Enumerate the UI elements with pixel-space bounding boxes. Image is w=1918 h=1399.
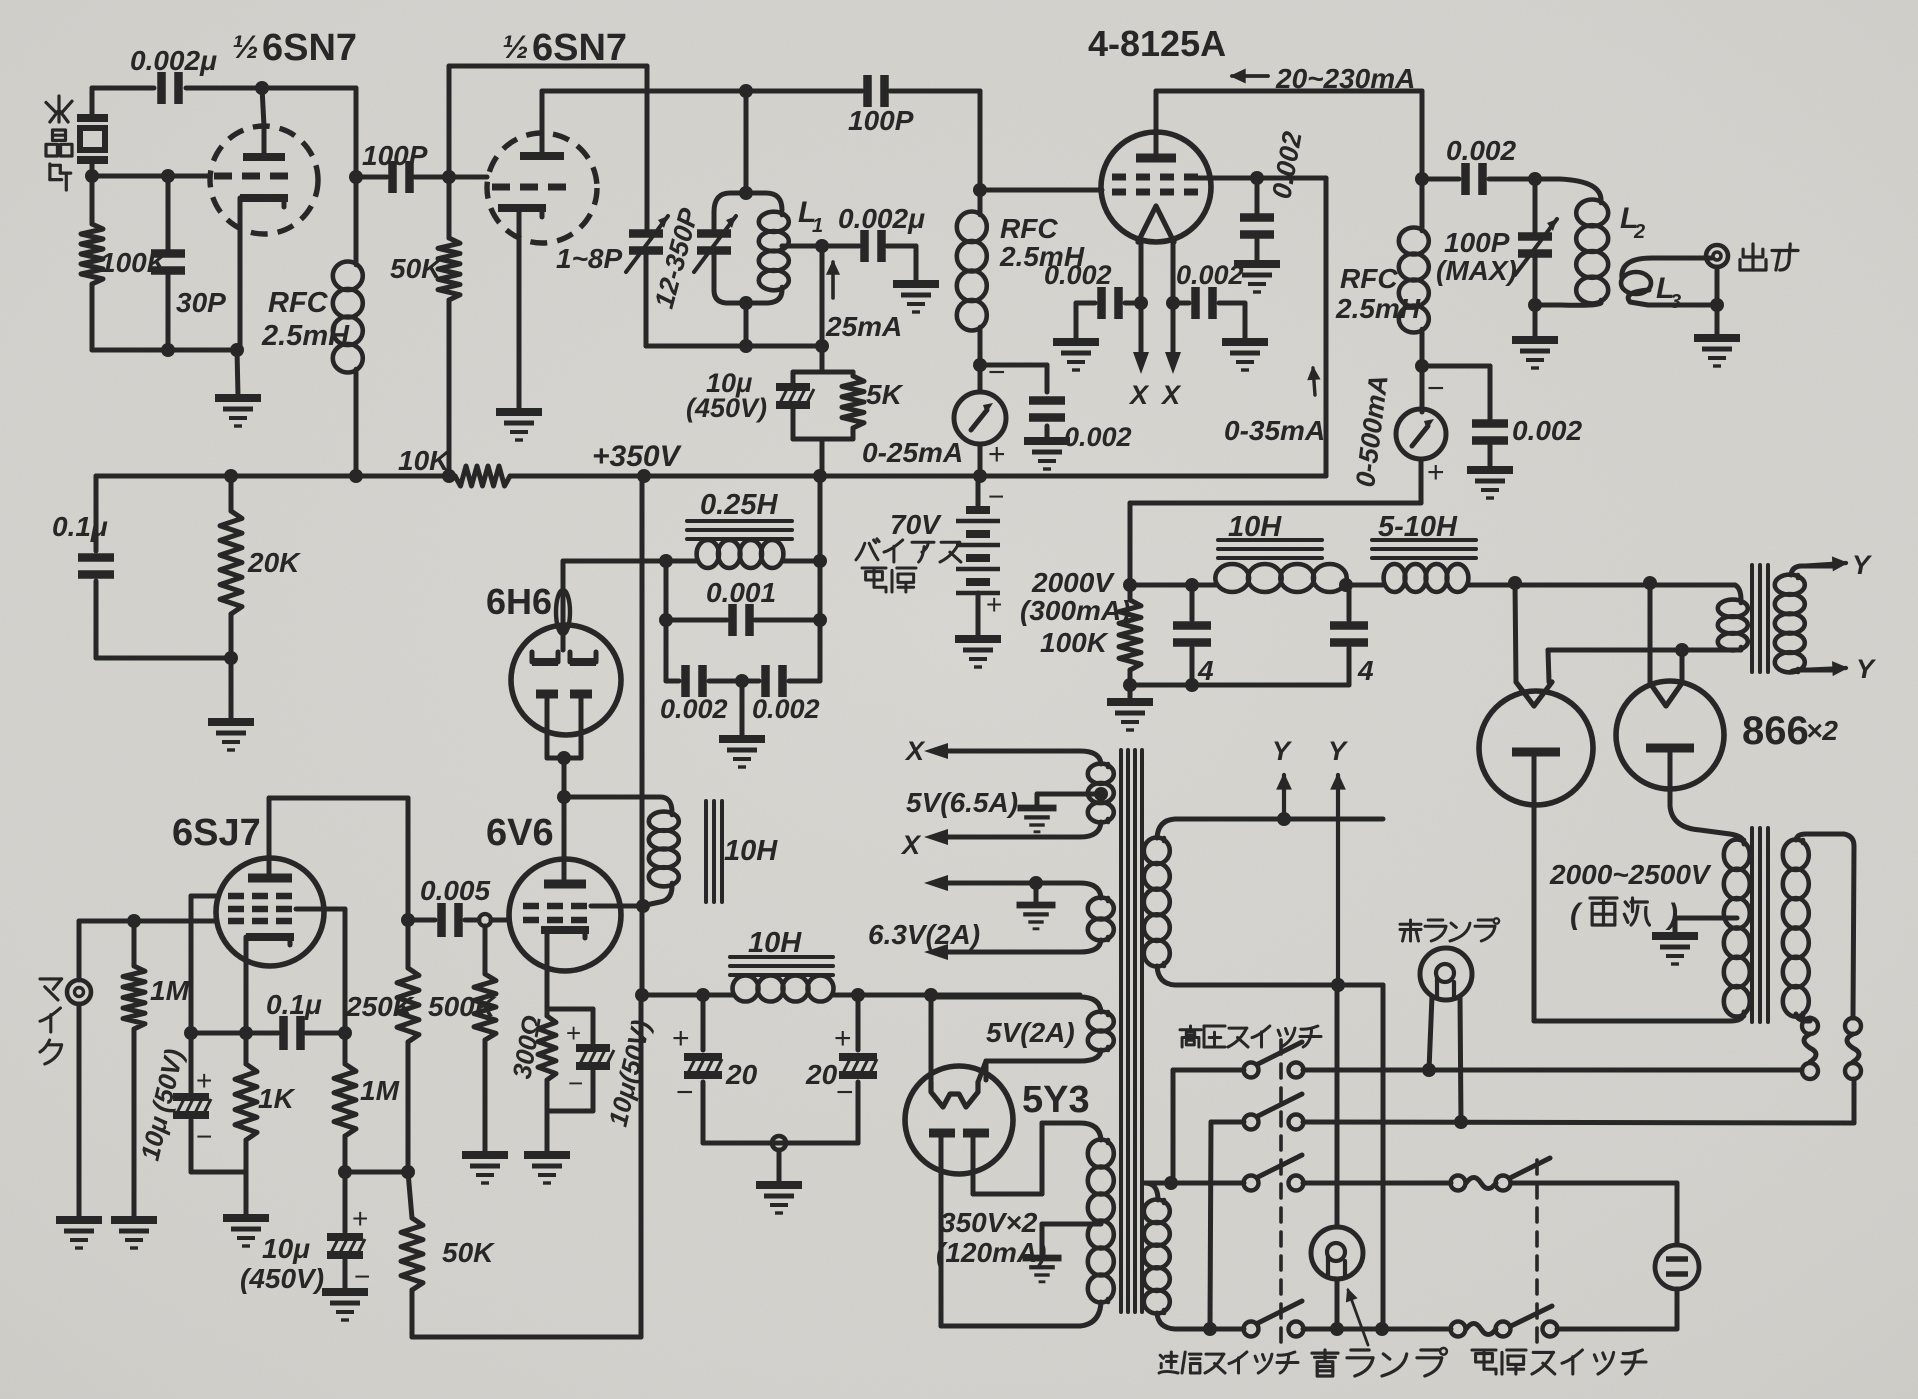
junction screen node xyxy=(1250,171,1264,185)
label output (shutsuryoku) xyxy=(1740,244,1798,270)
junction fil bypass right xyxy=(1166,296,1180,310)
label 6.3V(2A) xyxy=(868,919,980,950)
svg-text:+: + xyxy=(1427,456,1445,489)
tube V5 filament V xyxy=(1516,682,1552,706)
junction 0.005 node xyxy=(401,913,415,927)
label L2 xyxy=(1620,202,1645,243)
ground battery xyxy=(955,639,1001,667)
junction 0.002 centre xyxy=(735,674,749,688)
ground output tank xyxy=(1512,305,1558,368)
svg-text:70V: 70V xyxy=(890,509,942,540)
junction rail 50K xyxy=(442,469,456,483)
label plus meter2 xyxy=(1427,456,1445,489)
svg-text:×2: ×2 xyxy=(1806,715,1838,746)
svg-text:RFC: RFC xyxy=(1000,213,1058,244)
label bias plus xyxy=(986,589,1002,620)
resistor 50K audio xyxy=(401,1172,423,1337)
ground fil right xyxy=(1222,342,1268,370)
svg-text:1K: 1K xyxy=(258,1083,296,1114)
svg-text:−: − xyxy=(836,1076,854,1109)
label 5K xyxy=(866,379,904,410)
wire cathode rail xyxy=(191,1031,345,1036)
junction HV cap1 xyxy=(1185,578,1199,592)
label 10u50V second xyxy=(603,1017,657,1129)
svg-text:−: − xyxy=(1427,372,1445,405)
wire 50K return xyxy=(412,995,641,1337)
svg-text:10H: 10H xyxy=(748,927,802,959)
label plus 10u450 xyxy=(352,1203,368,1234)
transformer main core xyxy=(1121,750,1142,1312)
svg-text:5K: 5K xyxy=(866,379,904,410)
label 1~8P xyxy=(556,243,622,274)
capacitor 0.002 fil right xyxy=(1173,287,1245,340)
crystal X1 xyxy=(77,88,108,176)
wire LV B+ rail xyxy=(642,993,1080,998)
transformer fil866 secondary xyxy=(1775,566,1832,672)
wire HV bottom rail xyxy=(1130,683,1349,688)
label ao-lamp xyxy=(1312,1348,1447,1376)
wire top plate line osc xyxy=(92,86,356,91)
tube V1 plate xyxy=(243,88,285,157)
label 0.002 bypass xyxy=(1512,415,1582,446)
varcap 100P MAX xyxy=(1515,179,1557,304)
label 0.002u tank xyxy=(838,203,925,234)
output jack xyxy=(1706,245,1728,305)
connector link left xyxy=(1802,1018,1818,1079)
svg-text:5V(2A): 5V(2A) xyxy=(986,1017,1075,1048)
tube V6 anode xyxy=(1646,748,1744,844)
junction HV bottom left xyxy=(1123,678,1137,692)
capacitor 0.002 meter1 bypass xyxy=(980,365,1065,439)
junction RFC3 bottom xyxy=(1415,359,1429,373)
svg-text:0-25mA: 0-25mA xyxy=(862,437,963,468)
label 1K xyxy=(258,1083,296,1114)
arrow Y top xyxy=(1800,550,1873,580)
svg-text:+: + xyxy=(988,438,1006,471)
tube V3 4-8125A envelope xyxy=(1101,132,1211,242)
svg-text:X: X xyxy=(1160,380,1182,410)
tube V1 cathode xyxy=(240,198,288,350)
arrowhead X1 xyxy=(924,743,948,759)
ground 20K xyxy=(208,722,254,750)
ground 0.002u tank xyxy=(893,284,939,312)
junction tank top xyxy=(739,186,753,200)
svg-text:2: 2 xyxy=(1633,221,1645,243)
svg-text:0.002: 0.002 xyxy=(1064,422,1132,452)
ground LV filter xyxy=(756,1185,802,1213)
tube V4 plates xyxy=(536,694,592,758)
label 6SJ7 xyxy=(172,812,261,854)
label 0.002 fil-left xyxy=(1044,260,1112,290)
label 0.002 meter1-bypass xyxy=(1064,422,1132,452)
svg-text:10K: 10K xyxy=(398,445,451,476)
label 300ohm xyxy=(506,1013,547,1081)
svg-text:0.25H: 0.25H xyxy=(700,489,778,521)
capacitor 0.002 pair right xyxy=(709,665,820,697)
wire plate line y91 xyxy=(542,91,980,190)
label L3 xyxy=(1656,272,1681,313)
label aka-lamp xyxy=(1400,918,1499,941)
wire PA plate top xyxy=(1156,89,1422,94)
svg-text:0.1μ: 0.1μ xyxy=(52,511,108,542)
svg-text:4-8125A: 4-8125A xyxy=(1088,23,1226,64)
ground mic xyxy=(56,1220,102,1248)
junction LV cap1 xyxy=(696,988,710,1002)
capacitor 0.002u osc feedback xyxy=(130,45,217,104)
svg-text:25mA: 25mA xyxy=(825,311,902,342)
wire tank bottom to rail xyxy=(744,303,749,346)
tube V3 plate xyxy=(1136,91,1176,158)
wire screen exit 6SJ7 xyxy=(296,909,345,1033)
wire row4 xyxy=(1210,1327,1451,1332)
switch dengen lower xyxy=(1451,1306,1558,1337)
capacitor 12-350P variable xyxy=(694,212,736,290)
capacitor 20uF first xyxy=(684,995,722,1143)
junction choke-left top xyxy=(659,554,673,568)
label bias (baiasu) xyxy=(856,539,961,562)
junction LV feed xyxy=(635,988,649,1002)
svg-text:X: X xyxy=(904,736,926,766)
junction meter1 rail xyxy=(973,469,987,483)
wire control grid mic xyxy=(79,919,216,924)
label 0.25H xyxy=(700,489,778,521)
ground 500K xyxy=(462,1155,508,1183)
label 20 second xyxy=(805,1059,838,1090)
ground 6V6 cathode xyxy=(524,1155,570,1183)
label 6H6 xyxy=(486,581,552,622)
wire 0.001 left leg xyxy=(664,561,669,681)
junction grid node V2 xyxy=(442,170,456,184)
label 100P MAX xyxy=(1436,227,1517,286)
inductor L1 xyxy=(714,212,789,303)
wire bluelamp top xyxy=(1335,985,1340,1227)
junction sg rail right xyxy=(401,1165,415,1179)
label minus 10u-1 xyxy=(196,1121,212,1152)
junction 6H6 plates xyxy=(557,751,571,765)
svg-text:+: + xyxy=(986,589,1002,620)
svg-text:−: − xyxy=(196,1121,212,1152)
svg-text:0.002: 0.002 xyxy=(660,694,728,724)
tube V7 5Y3 envelope xyxy=(905,1066,1013,1174)
svg-text:+: + xyxy=(566,1018,581,1048)
junction fil bypass left xyxy=(1134,296,1148,310)
svg-text:0.002: 0.002 xyxy=(1512,415,1582,446)
label 2000-2500V xyxy=(1549,859,1712,890)
wire V7 fil left xyxy=(929,995,934,1082)
choke 10H LV core xyxy=(730,957,833,975)
choke 10H mod coil xyxy=(646,812,679,905)
capacitor 4uF second xyxy=(1330,585,1368,685)
tube V3 grid rows xyxy=(1112,177,1198,192)
label 0-500mA xyxy=(1350,373,1393,488)
svg-text:500K: 500K xyxy=(428,991,497,1022)
svg-text:6SN7: 6SN7 xyxy=(532,27,627,69)
junction tank bottom rail xyxy=(739,339,753,353)
wire V7 plate right xyxy=(973,1123,1044,1194)
annotation arrow 20-230mA xyxy=(1232,63,1415,94)
label Y2 xyxy=(1328,736,1349,766)
wire LV ground stem xyxy=(777,1150,782,1183)
ground output jack xyxy=(1694,305,1740,366)
winding 5V6.5A xyxy=(940,751,1114,837)
svg-text:350V×2: 350V×2 xyxy=(940,1207,1038,1238)
junction RFC1 plate node xyxy=(349,170,363,184)
label 70V xyxy=(890,509,942,540)
svg-text:−: − xyxy=(988,481,1004,512)
tube V7 filament W xyxy=(931,1082,978,1107)
switch kouatsu pole2 xyxy=(1244,1094,1304,1130)
capacitor 100P interstage xyxy=(393,161,410,193)
svg-text:10H: 10H xyxy=(1228,511,1282,543)
svg-text:2000~2500V: 2000~2500V xyxy=(1549,859,1712,890)
svg-text:2000V: 2000V xyxy=(1031,567,1115,598)
junction bus 866-left xyxy=(1508,576,1522,590)
svg-text:+: + xyxy=(834,1022,852,1055)
outlet symbol xyxy=(1655,1245,1699,1289)
junction row3 left xyxy=(1164,1176,1178,1190)
choke RFC3 plate xyxy=(1399,91,1429,412)
svg-text:1~8P: 1~8P xyxy=(556,243,622,274)
switch sousin pole3 xyxy=(1244,1155,1304,1191)
fuse upper xyxy=(1451,1176,1511,1191)
junction 30P top xyxy=(161,169,175,183)
label 0.002 coupling xyxy=(1446,135,1516,166)
ground 1M first xyxy=(111,1220,157,1248)
wire primary right side xyxy=(1381,985,1386,1329)
tube V8 6SJ7 envelope xyxy=(216,858,324,966)
junction rail RFC1 xyxy=(349,469,363,483)
junction 30P bottom xyxy=(161,343,175,357)
ground 1K xyxy=(223,1218,269,1246)
label 2000V xyxy=(1031,567,1115,598)
wire V7 plate left xyxy=(941,1137,1080,1326)
junction output tank top xyxy=(1528,172,1542,186)
label 0.001 xyxy=(706,577,776,608)
label 10H HV xyxy=(1228,511,1282,543)
svg-text:+: + xyxy=(672,1022,690,1055)
junction choke-right top xyxy=(813,554,827,568)
wire 6H6 plate join xyxy=(547,756,581,761)
capacitor 1-8P trimmer xyxy=(626,216,668,346)
wire V7 fil right xyxy=(978,1061,986,1082)
svg-text:0.002: 0.002 xyxy=(752,694,820,724)
label X filament left xyxy=(1128,380,1150,410)
label X top xyxy=(904,736,926,766)
resistor 10K on rail xyxy=(455,466,510,486)
label L1 xyxy=(798,196,823,237)
svg-text:+350V: +350V xyxy=(592,440,683,473)
capacitor 0.1u rail xyxy=(78,558,114,575)
capacitor 0.001 xyxy=(666,604,820,636)
svg-text:4: 4 xyxy=(1357,655,1374,686)
winding 5V2A xyxy=(931,997,1114,1080)
junction screen rail xyxy=(338,1026,352,1040)
junction 6V6 plate xyxy=(557,790,571,804)
svg-text:5-10H: 5-10H xyxy=(1378,511,1458,543)
junction rail B-feed xyxy=(637,469,651,483)
label 50K xyxy=(390,253,443,284)
svg-text:30P: 30P xyxy=(176,287,226,318)
label 100P first xyxy=(362,140,428,171)
label 0.002 screen xyxy=(1266,129,1307,201)
battery 70V bias xyxy=(956,476,1000,637)
capacitor 20uF second xyxy=(839,995,877,1143)
transformer fil866 primary xyxy=(1718,585,1748,650)
label minus cap20-1 xyxy=(676,1076,694,1109)
tube V1 grid dashes xyxy=(214,173,288,180)
junction HV bottom right xyxy=(1185,678,1199,692)
label minus meter1 xyxy=(988,356,1006,389)
junction cathode bottom xyxy=(230,343,244,357)
label 6V6 xyxy=(486,812,554,854)
svg-text:5Y3: 5Y3 xyxy=(1022,1079,1090,1121)
tube V4 cathodes xyxy=(532,652,596,662)
transformer fil866 core xyxy=(1752,565,1768,672)
label 300mA xyxy=(1020,595,1130,626)
svg-text:−: − xyxy=(988,356,1006,389)
svg-text:−: − xyxy=(676,1076,694,1109)
capacitor 10u 450V osc-cathode xyxy=(776,387,814,405)
junction 20K bottom xyxy=(224,651,238,665)
label RFC 2.5mH osc xyxy=(261,287,350,352)
svg-text:−: − xyxy=(568,1068,583,1098)
junction 25mA node top xyxy=(815,239,829,253)
label dengen-switch xyxy=(1472,1350,1646,1374)
label 0.1u coupling xyxy=(266,989,322,1020)
svg-text:(300mA): (300mA) xyxy=(1020,595,1130,626)
wire row3 to outlet xyxy=(1511,1183,1677,1245)
wire screen loop right xyxy=(1257,178,1326,476)
switch kouatsu pole1 xyxy=(1244,1042,1304,1078)
label 100K xyxy=(100,247,169,278)
choke 10H LV coil xyxy=(733,976,834,1002)
svg-text:Y: Y xyxy=(1272,736,1293,766)
wire 6H6 top xyxy=(563,559,666,564)
arrow Y tap1 xyxy=(1278,775,1291,819)
arrowhead 63V bottom xyxy=(924,944,948,960)
wire rail left branch xyxy=(96,476,231,658)
wire tank feed drop xyxy=(744,91,749,193)
label X filament right xyxy=(1160,380,1182,410)
wire 6H6 to 6V6 plate xyxy=(562,758,567,797)
wire plus350V rail xyxy=(96,474,1326,479)
svg-text:+: + xyxy=(196,1065,212,1096)
svg-text:250K: 250K xyxy=(345,991,415,1022)
svg-text:X: X xyxy=(1128,380,1150,410)
ground V2 cathode xyxy=(496,412,542,440)
tube V9 cathode xyxy=(541,930,589,1009)
meter 0-500mA xyxy=(1396,409,1446,459)
wire meter1 bottom xyxy=(978,444,983,476)
junction LV cap2 xyxy=(851,988,865,1002)
junction cathode rail xyxy=(239,1026,253,1040)
wire row1 right xyxy=(1303,1068,1802,1073)
choke 10H HV coil xyxy=(1215,564,1346,592)
junction sg rail left xyxy=(338,1165,352,1179)
tube V8 plate xyxy=(248,798,292,878)
svg-text:Y: Y xyxy=(1856,654,1877,684)
wire LV bottom rail xyxy=(703,1141,858,1146)
transformer HV core xyxy=(1752,828,1768,1022)
label 1/2 6SN7 second xyxy=(502,27,627,69)
wire row2 right xyxy=(1303,1122,1854,1123)
svg-text:866: 866 xyxy=(1742,709,1809,753)
label 25mA xyxy=(825,311,902,342)
capacitor 0.002 meter bypass xyxy=(1472,424,1508,469)
svg-text:1M: 1M xyxy=(360,1075,400,1106)
junction rail 20K xyxy=(224,469,238,483)
annotation arrow 0-35mA xyxy=(1309,368,1319,395)
label 100K bleeder xyxy=(1040,627,1109,658)
arrowhead X2 xyxy=(924,829,948,845)
label 5V(6.5A) xyxy=(906,787,1018,818)
capacitor 0.1u coupling xyxy=(284,1016,301,1050)
resistor 5K xyxy=(842,376,864,428)
svg-text:6H6: 6H6 xyxy=(486,581,552,622)
svg-text:6.3V(2A): 6.3V(2A) xyxy=(868,919,980,950)
svg-text:0.005: 0.005 xyxy=(420,875,490,906)
label minus meter2 xyxy=(1427,372,1445,405)
svg-text:0.001: 0.001 xyxy=(706,577,776,608)
resistor 100K bleeder xyxy=(1119,585,1141,685)
junction RFC3 top cap xyxy=(1415,172,1429,186)
wire filament lead right xyxy=(1171,242,1176,360)
svg-text:100P: 100P xyxy=(362,140,428,171)
label 0-25mA xyxy=(862,437,963,468)
wire 25mA branch xyxy=(820,246,825,346)
capacitor 0.002 screen xyxy=(1240,178,1274,262)
tube V6 866 right envelope xyxy=(1616,681,1724,789)
tube V2 plate xyxy=(520,91,564,156)
capacitor 0.002 fil left xyxy=(1076,287,1141,340)
tube V4 top tip xyxy=(556,561,570,650)
ground meter bypass xyxy=(1467,470,1513,498)
svg-text:10H: 10H xyxy=(724,835,778,867)
wire row2 left xyxy=(1210,1122,1244,1329)
junction screen Bplus xyxy=(636,899,650,913)
svg-text:1M: 1M xyxy=(150,975,190,1006)
junction HV mid xyxy=(1339,578,1353,592)
switch sousin pole4 xyxy=(1244,1301,1304,1337)
winding 350V tap xyxy=(1023,1224,1102,1282)
choke 10H HV core xyxy=(1218,540,1322,558)
label 0.005 xyxy=(420,875,490,906)
label minus cap20-2 xyxy=(836,1076,854,1109)
label 0.002 fil-right xyxy=(1176,260,1244,290)
cathode network 6V6 xyxy=(538,1009,614,1153)
inductor L2 xyxy=(1535,179,1608,305)
winding 63V tap xyxy=(1017,876,1056,929)
winding 350Vx2 xyxy=(942,1123,1114,1326)
annotation arrow bluelamp xyxy=(1347,1290,1368,1345)
svg-text:5V(6.5A): 5V(6.5A) xyxy=(906,787,1018,818)
wire 0.001 right leg xyxy=(818,476,823,681)
tube V2 grid dashes xyxy=(492,184,566,191)
label plus 6V6cap xyxy=(566,1018,581,1048)
wire grid 6V6 xyxy=(491,918,509,923)
tube V9 6V6 envelope xyxy=(509,859,621,971)
capacitor 30P xyxy=(151,176,185,350)
dashed linkage left xyxy=(1279,1040,1283,1345)
resistor 500K xyxy=(474,926,496,1153)
label plus cap20-2 xyxy=(834,1022,852,1055)
svg-text:−: − xyxy=(354,1261,370,1292)
svg-text:+: + xyxy=(352,1203,368,1234)
arrowhead 63V top xyxy=(924,875,948,891)
junction tank feed xyxy=(739,84,753,98)
svg-text:20: 20 xyxy=(725,1059,758,1090)
arrowhead filament right xyxy=(1165,352,1181,374)
